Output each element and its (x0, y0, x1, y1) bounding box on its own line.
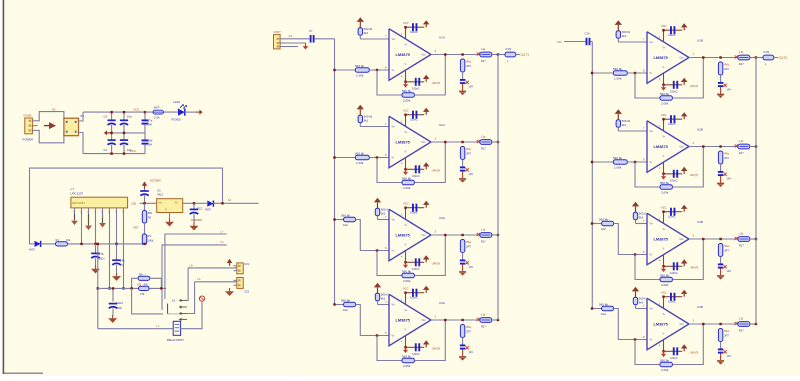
svg-text:R17: R17 (481, 324, 486, 328)
svg-text:R6a: R6a (724, 329, 729, 333)
resistor R4A1 1.09k (input) (344, 302, 356, 306)
resistor R1B4 2.7 (zobel) (718, 62, 722, 75)
wire 7812 input node (140, 202, 157, 204)
wire coil right to flag (181, 302, 202, 329)
svg-text:560.6k: 560.6k (355, 64, 365, 68)
wire input branch amp R3 (592, 223, 602, 225)
svg-text:100k: 100k (148, 239, 154, 243)
inductor L2A (output) (480, 140, 492, 145)
wire to inverting input amp M2 (369, 157, 389, 159)
svg-text:100nC: 100nC (412, 87, 420, 91)
svg-text:VCC: VCC (403, 287, 409, 291)
resistor R4A2 560.6k (Vi+ bias) (375, 293, 379, 301)
resistor R2A2 560.6k (Vi+ bias) (358, 115, 362, 123)
svg-text:-24V(?): -24V(?) (432, 347, 441, 351)
power arrow V+ amp R3 (683, 209, 685, 212)
wire AC bottom (38, 130, 64, 142)
power arrow 0V (left) (107, 132, 110, 134)
svg-text:LM3875: LM3875 (654, 144, 669, 149)
wire V- pin amp M4 (405, 336, 407, 348)
capacitor C1 2.2u (input coupling) (310, 35, 312, 43)
capacitor C3A1 0.1 (V+ decoupling) (412, 204, 414, 212)
diode D2 1N4007 (207, 201, 213, 207)
ground zobel amp M2 (462, 171, 464, 178)
svg-text:9k1: 9k1 (381, 212, 386, 216)
svg-text:Out: Out (422, 54, 426, 57)
wire V+ pin amp M2 (405, 115, 407, 127)
svg-text:560.6k: 560.6k (660, 273, 670, 277)
svg-text:R+: R+ (221, 240, 225, 244)
ground zobel amp R2 (720, 176, 722, 183)
svg-text:2R7: 2R7 (466, 64, 471, 68)
power arrow Vi+ bias amp R1 (617, 25, 619, 31)
svg-text:560.6k: 560.6k (402, 89, 412, 93)
svg-text:560.6k: 560.6k (613, 156, 623, 160)
capacitor C1B1 0.1 (V+ decoupling) (670, 26, 672, 34)
ground CZ2 (229, 288, 231, 291)
capacitor C2B3 0.1 (zobel) (718, 171, 724, 173)
op-amp U2B LM3875 (647, 121, 689, 173)
wire Vi+ amp R2 (617, 127, 619, 131)
svg-text:104: 104 (726, 269, 731, 273)
svg-text:560.6k: 560.6k (660, 358, 670, 362)
svg-text:0.05r: 0.05r (764, 50, 770, 54)
wire output amp M2 (431, 141, 480, 143)
resistor R4B2 560.6k (Vi+ bias) (633, 297, 637, 305)
wire V+ pin amp M4 (405, 293, 407, 305)
svg-text:220u: 220u (116, 306, 122, 310)
svg-text:Vi+: Vi+ (650, 308, 654, 311)
wire zobel amp M2 (462, 160, 464, 168)
op-amp U4A LM3875 (389, 294, 431, 346)
wire jog to inverting input amp R4 (614, 309, 647, 340)
svg-text:Out: Out (422, 234, 426, 237)
svg-text:Vi+: Vi+ (650, 41, 654, 44)
svg-text:Vi-: Vi- (392, 335, 395, 338)
svg-text:9k1: 9k1 (639, 216, 644, 220)
resistor R1A3 2.09k (feedback) (402, 93, 415, 97)
svg-text:4007: 4007 (29, 248, 35, 252)
svg-text:2.09k: 2.09k (661, 368, 669, 372)
svg-text:V-: V- (405, 152, 407, 154)
svg-text:R6a: R6a (466, 240, 471, 244)
svg-text:100nC: 100nC (668, 33, 676, 37)
svg-text:Vi-: Vi- (650, 161, 653, 164)
svg-text:Vi-: Vi- (650, 254, 653, 257)
svg-text:CON?: CON? (274, 30, 282, 34)
pin 7 UPC1237 (116, 208, 118, 214)
capacitor C7a 0.1 (144, 112, 146, 120)
svg-text:9k1: 9k1 (622, 123, 627, 127)
wire contact 3 up (187, 282, 195, 314)
pin 4 UPC1237 (95, 208, 97, 214)
wire zobel amp M3 (462, 253, 464, 261)
svg-text:560.6k: 560.6k (402, 269, 412, 273)
ground V- stub amp M3 (405, 262, 407, 265)
wire zobel amp R4 (720, 342, 722, 350)
svg-text:R4: R4 (139, 272, 143, 276)
resistor R4B4 2.7 (zobel) (718, 329, 722, 342)
wire V- pin amp R3 (663, 255, 665, 267)
ground C4A (116, 273, 118, 276)
svg-text:GN?: GN? (133, 226, 139, 230)
resistor R2A1 1.09k (input) (355, 155, 369, 159)
svg-text:2R7: 2R7 (466, 330, 471, 334)
svg-text:VCC: VCC (661, 291, 667, 295)
wire R4R5 left rail (132, 278, 138, 288)
ground zobel amp R3 (720, 268, 722, 275)
svg-text:2R7: 2R7 (466, 245, 471, 249)
svg-text:VCC: VCC (661, 24, 667, 28)
wire to inverting input amp R2 (627, 161, 647, 163)
svg-text:560.6k: 560.6k (355, 151, 365, 155)
svg-text:CON3: CON3 (24, 114, 32, 118)
svg-text:R6a: R6a (724, 244, 729, 248)
resistor R1A4 2.7 (zobel) (460, 59, 464, 72)
wire output to bus amp R1 (750, 57, 756, 59)
svg-text:L1b: L1b (739, 232, 744, 236)
svg-text:C7a: C7a (148, 119, 153, 123)
svg-text:R6a: R6a (724, 63, 729, 67)
svg-text:100nC: 100nC (670, 179, 678, 183)
wire cap to bus (right) (590, 41, 592, 43)
svg-text:U3: U3 (157, 189, 161, 193)
resistor R3A1 1.09k (input) (344, 217, 356, 221)
wire Vi+ amp R1 (617, 38, 619, 42)
svg-text:Out: Out (422, 141, 426, 144)
svg-text:V-: V- (405, 245, 407, 247)
resistor R3A4 2.7 (zobel) (460, 240, 464, 253)
diode D1 1N4007 (30, 243, 35, 245)
ground RC1 (193, 223, 195, 226)
fuse F1 (145, 111, 178, 113)
wire input branch amp M1 (335, 69, 356, 71)
svg-text:104: 104 (468, 265, 473, 269)
capacitor C3B3 0.1 (zobel) (718, 263, 724, 265)
svg-text:Out: Out (680, 146, 684, 149)
svg-text:1.09k: 1.09k (614, 76, 622, 80)
svg-text:560.6k: 560.6k (402, 176, 412, 180)
power arrow V+ amp R1 (683, 27, 685, 30)
capacitor C4B2 0.1 (V- decoupling) (673, 347, 675, 355)
wire V- pin amp M3 (405, 251, 407, 263)
svg-text:2R7: 2R7 (724, 67, 729, 71)
wire VCC rail (83, 111, 145, 113)
resistor R3B1 1.09k (input) (602, 221, 614, 225)
relay K1 coil (173, 321, 180, 335)
ground zobel amp R1 (720, 87, 722, 94)
resistor R3B4 2.7 (zobel) (718, 244, 722, 257)
ground C3AA (112, 315, 114, 318)
wire output amp M4 (431, 319, 480, 321)
svg-text:U2A: U2A (439, 123, 445, 127)
capacitor C2 10000u (111, 133, 113, 140)
harness arrow (AC pair) (44, 125, 49, 127)
wire input to cap (285, 38, 310, 40)
svg-text:V-: V- (405, 330, 407, 332)
wire coil bottom left (98, 328, 173, 330)
power arrow V- amp R4 (683, 348, 685, 351)
wire feedback amp M1 (377, 70, 402, 95)
wire pin7 down (116, 214, 118, 244)
inductor L4A (output) (480, 318, 492, 323)
LED LED1 (178, 109, 185, 116)
wire relay common (132, 288, 163, 314)
svg-text:U3A: U3A (439, 216, 445, 220)
power arrow Vi+ bias amp M3 (377, 202, 379, 208)
svg-text:R6a: R6a (466, 60, 471, 64)
junction node Vi- amp R2 (591, 161, 593, 163)
wire LED to power port (185, 111, 196, 113)
svg-text:560.6k: 560.6k (341, 298, 351, 302)
svg-text:2R7: 2R7 (466, 152, 471, 156)
wire V- pin amp R2 (663, 162, 665, 174)
capacitor C3B2 0.1 (V- decoupling) (673, 262, 675, 270)
wire bridge - to -VCC rail (79, 133, 84, 154)
svg-text:1.09k: 1.09k (356, 73, 364, 77)
svg-text:1k2: 1k2 (343, 223, 348, 227)
svg-text:C3AA: C3AA (116, 301, 123, 305)
wire feedback amp R4 (635, 340, 660, 365)
wire Vi+ amp R3 (635, 220, 637, 224)
wire Vi+ amp R4 (635, 305, 637, 309)
junction node amp M4 (333, 303, 335, 305)
wire V+ pin amp R1 (663, 30, 665, 42)
wire output amp R4 (689, 323, 738, 325)
svg-text:U2B: U2B (697, 128, 703, 132)
svg-text:Vi-: Vi- (392, 69, 395, 72)
wire V- pin amp M2 (405, 158, 407, 170)
power arrow Vi+ bias amp R4 (635, 291, 637, 297)
ground zobel amp M1 (462, 84, 464, 91)
svg-text:L1a: L1a (481, 228, 486, 232)
wire input branch amp R4 (592, 308, 602, 310)
resistor R1B3 2.09k (feedback) (660, 96, 673, 100)
svg-text:LED1: LED1 (174, 100, 181, 104)
ground V- stub amp R3 (663, 266, 665, 269)
wire to output label R (774, 57, 778, 59)
wire R4R5 right rail (150, 278, 162, 288)
wire zobel amp R3 (720, 257, 722, 265)
op-amp U1A LM3875 (389, 29, 431, 81)
power arrow V- amp M3 (425, 259, 427, 262)
svg-text:104: 104 (148, 143, 153, 147)
svg-text:LM3875: LM3875 (396, 52, 411, 57)
wire 12V output (213, 202, 258, 204)
wire input branch amp R1 (592, 72, 613, 74)
ground V- stub amp M2 (405, 169, 407, 172)
svg-text:104: 104 (148, 123, 153, 127)
wire jog to inverting input amp M3 (356, 220, 389, 251)
svg-text:R6a: R6a (724, 152, 729, 156)
svg-text:1000/50V: 1000/50V (191, 218, 202, 222)
capacitor C1A3 0.1 (zobel) (460, 79, 466, 81)
svg-text:1k2: 1k2 (601, 227, 606, 231)
svg-text:9k1: 9k1 (639, 301, 644, 305)
svg-text:-24V(?): -24V(?) (690, 84, 699, 88)
wire jog to inverting input amp R3 (614, 224, 647, 255)
wire output to bus amp M4 (492, 319, 498, 321)
ground zobel amp M3 (462, 264, 464, 271)
svg-text:VCC: VCC (403, 202, 409, 206)
svg-text:VCC: VCC (661, 113, 667, 117)
svg-text:(25): (25) (132, 202, 137, 206)
svg-text:100nC: 100nC (670, 90, 678, 94)
wire feedback amp M4 (377, 336, 402, 361)
svg-text:R17: R17 (739, 328, 744, 332)
wire output node amp R1 (756, 57, 763, 59)
resistor R1B1 1.09k (input) (613, 71, 627, 75)
wire output to bus amp M2 (492, 141, 498, 143)
svg-text:Out: Out (422, 319, 426, 322)
wire V+ pin amp R4 (663, 297, 665, 309)
capacitor RC1 1000u/50V (193, 203, 195, 209)
svg-text:VCC: VCC (134, 108, 140, 112)
resistor R3A2 560.6k (Vi+ bias) (375, 208, 379, 216)
connector CZ1 (speaker out) (237, 263, 243, 274)
wire to inverting input amp R1 (627, 72, 647, 74)
capacitor CVT 100u/50V (144, 189, 146, 192)
resistor R5 47k (139, 286, 150, 290)
wire input branch amp M3 (335, 219, 344, 221)
svg-text:C1A: C1A (585, 32, 590, 36)
wire feedback amp R3 (635, 255, 660, 280)
capacitor C2A2 0.1 (V- decoupling) (415, 165, 417, 173)
ground V- stub amp R2 (663, 174, 665, 177)
capacitor C3A3 0.1 (zobel) (460, 259, 466, 261)
svg-text:10m: 10m (127, 148, 133, 152)
svg-text:V-: V- (663, 249, 665, 251)
svg-text:Vin: Vin (159, 201, 163, 205)
svg-text:-24V(?): -24V(?) (690, 351, 699, 355)
svg-text:Vi+: Vi+ (392, 126, 396, 129)
wire zobel amp R2 (720, 164, 722, 172)
wire feedback to output amp R4 (673, 324, 704, 365)
wire jog to inverting input amp M4 (356, 305, 389, 336)
svg-text:100nC: 100nC (410, 118, 418, 122)
wire V+ pin amp M1 (405, 27, 407, 39)
svg-text:U4B: U4B (697, 305, 703, 309)
svg-text:CZ1: CZ1 (244, 262, 249, 266)
svg-text:560.6k: 560.6k (599, 302, 609, 306)
svg-text:L1b: L1b (739, 317, 744, 321)
ground input (red) (285, 42, 306, 44)
power arrow V+ amp M3 (425, 205, 427, 208)
power arrow above CZ1 (229, 263, 231, 266)
svg-text:9k1: 9k1 (364, 31, 369, 35)
capacitor C1B2 0.1 (V- decoupling) (673, 81, 675, 89)
svg-text:1k2: 1k2 (343, 308, 348, 312)
op-amp U4B LM3875 (647, 298, 689, 350)
wire speaker feed L (165, 234, 227, 299)
svg-text:47k: 47k (140, 292, 145, 296)
resistor R4A4 2.7 (zobel) (460, 325, 464, 338)
resistor R4A3 2.09k (feedback) (402, 358, 415, 362)
pin 1 UPC1237 (74, 208, 76, 214)
pin 2 UPC1237 (81, 208, 83, 214)
svg-text:UPC1237: UPC1237 (72, 201, 85, 205)
wire IN2 to cap (564, 41, 586, 43)
svg-text:RELAY-DPDT: RELAY-DPDT (167, 338, 185, 342)
svg-text:100nC: 100nC (410, 211, 418, 215)
svg-text:100nC: 100nC (410, 296, 418, 300)
wire R3 to rail (144, 244, 146, 245)
wire feedback amp R1 (635, 73, 660, 98)
svg-text:UPC1237: UPC1237 (71, 192, 84, 196)
resistor R2B4 2.7 (zobel) (718, 151, 722, 164)
wire input branch amp R2 (592, 161, 613, 163)
svg-text:R3: R3 (148, 234, 152, 238)
ground V- stub amp M1 (405, 82, 407, 85)
svg-text:104: 104 (468, 85, 473, 89)
svg-text:R17: R17 (739, 62, 744, 66)
svg-text:Out: Out (680, 323, 684, 326)
svg-text:L1a: L1a (481, 47, 486, 51)
wire input branch amp M4 (335, 304, 344, 306)
ground zobel amp M4 (462, 349, 464, 356)
svg-text:1k2: 1k2 (601, 312, 606, 316)
svg-text:C4A: C4A (120, 258, 125, 262)
wire feedback to output amp M3 (415, 235, 446, 276)
ground C7A (95, 266, 97, 269)
svg-text:100nC: 100nC (412, 267, 420, 271)
capacitor C4A3 0.1 (zobel) (460, 344, 466, 346)
svg-text:Vi+: Vi+ (392, 219, 396, 222)
power arrow V- amp M2 (425, 166, 427, 169)
svg-text:-24V(?): -24V(?) (690, 266, 699, 270)
svg-text:u:?: u:? (71, 187, 75, 191)
wire output to bus amp M3 (492, 234, 498, 236)
ground pin1 UPC1237 (74, 214, 76, 221)
svg-text:2R7: 2R7 (724, 156, 729, 160)
svg-text:100nC: 100nC (410, 30, 418, 34)
resistor R0A 0.05R (output ballast) (505, 52, 516, 57)
wire output amp M1 (431, 54, 480, 56)
resistor R4B3 2.09k (feedback) (660, 362, 673, 366)
wire output to bus amp R4 (750, 323, 756, 325)
svg-text:1.0: 1.0 (289, 34, 293, 38)
svg-text:V-: V- (663, 156, 665, 158)
svg-text:5k6: 5k6 (148, 211, 153, 215)
svg-text:Vi-: Vi- (392, 157, 395, 160)
svg-text:G: G (165, 209, 167, 212)
input bus wire (right) (591, 42, 593, 309)
wire to output label M (516, 54, 520, 56)
wire Vi+ amp M2 (359, 123, 361, 127)
power arrow +VT (144, 186, 146, 189)
wire output node amp M1 (498, 54, 505, 56)
capacitor C1B3 0.1 (zobel) (718, 82, 724, 84)
svg-text:-24V(?): -24V(?) (432, 169, 441, 173)
svg-text:LM3875: LM3875 (396, 318, 411, 323)
IC U2 UPC1237 (speaker protector) (71, 197, 128, 208)
inductor L3A (output) (480, 233, 492, 238)
svg-text:104: 104 (468, 172, 473, 176)
regulator U3 7812 (157, 199, 183, 213)
svg-text:Vi-: Vi- (650, 72, 653, 75)
svg-text:U1A: U1A (439, 36, 445, 40)
svg-text:-24V(?): -24V(?) (432, 81, 441, 85)
wire V+ pin amp R2 (663, 119, 665, 131)
ground pin3 UPC1237 (88, 214, 90, 226)
wire output amp R1 (689, 57, 738, 59)
resistor R1 10k (56, 242, 68, 246)
svg-text:100nC: 100nC (668, 300, 676, 304)
svg-text:47u: 47u (120, 263, 125, 267)
svg-text:LM3875: LM3875 (654, 237, 669, 242)
pin 3 UPC1237 (88, 208, 90, 214)
wire feedback to output amp M4 (415, 320, 446, 361)
